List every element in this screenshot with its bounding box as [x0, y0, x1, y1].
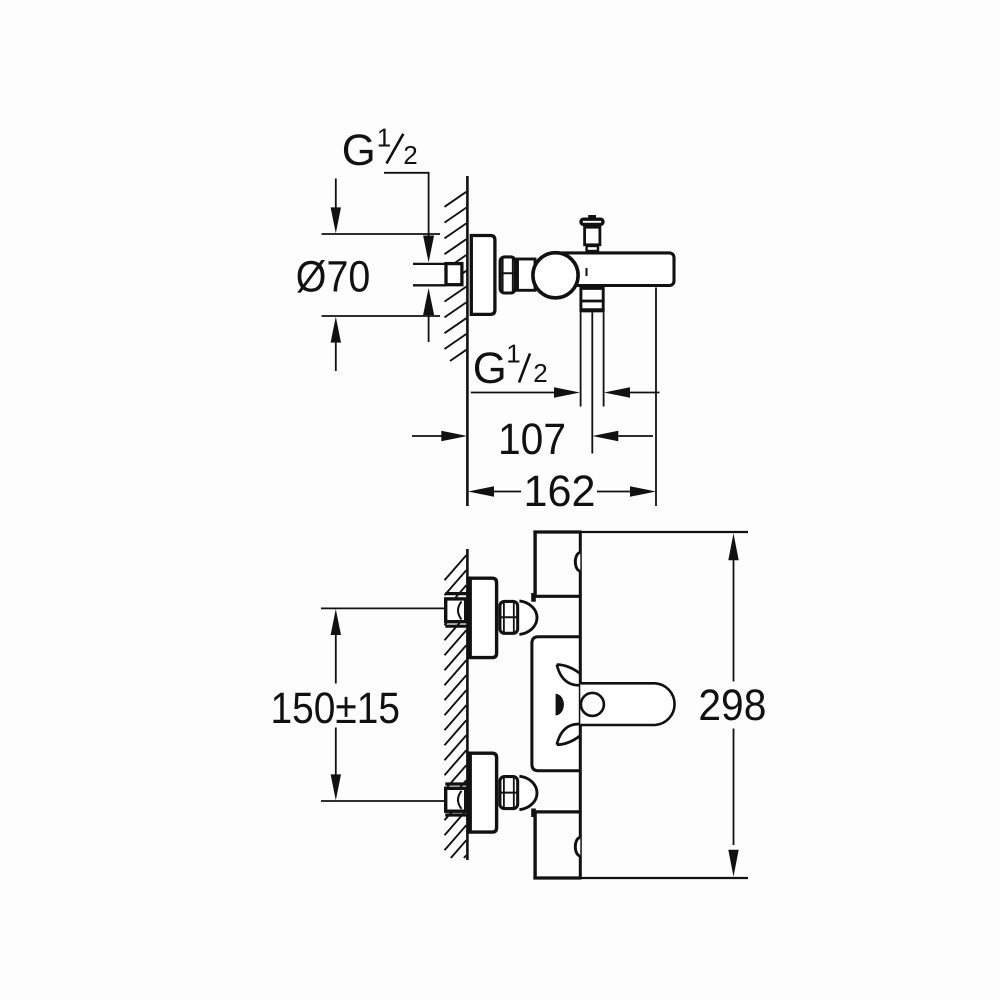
- body bottom end face: [533, 876, 581, 879]
- top square pipe fitting: [446, 599, 466, 622]
- wall (plan view) surface line: [466, 549, 469, 860]
- svg-text:G: G: [342, 126, 376, 175]
- dimension Ø70: extension lines: [322, 233, 441, 235]
- diverter knob stem: [585, 227, 600, 245]
- bottom escutcheon (plan): [470, 753, 496, 832]
- valve inlet cylinder: [518, 259, 536, 290]
- body front face line (plan): [579, 532, 582, 878]
- bottom union boss corner: [532, 809, 536, 817]
- dimension G 1/2: line and arrows: [471, 392, 556, 394]
- wall (plan view) hatching: [445, 555, 467, 580]
- diverter knob cap: [581, 219, 603, 224]
- bottom handle left edge: [533, 812, 536, 879]
- body centre block (plan): [532, 637, 580, 771]
- outlet centre extension line: [591, 312, 593, 453]
- mixer body bar (side view): [552, 253, 674, 286]
- outlet right extension line: [603, 312, 605, 406]
- dimension Ø70: bottom arrow: [331, 317, 341, 343]
- dimension 107: line and arrows: [412, 435, 443, 437]
- svg-text:1: 1: [377, 123, 391, 153]
- bottom handle top edge: [533, 810, 580, 813]
- spout end extension line (162): [655, 288, 657, 507]
- 298 extension line top: [582, 531, 749, 533]
- dimension 162: line, arrows, text: [468, 486, 494, 496]
- leader line from G 1/2: [384, 173, 429, 237]
- handle lever wing bottom: [557, 724, 581, 745]
- diverter knob neck: [587, 246, 598, 251]
- top union dome: [519, 601, 537, 635]
- dimension 298: line and arrows: [728, 533, 738, 560]
- bath spout outlet block: [581, 288, 603, 311]
- escutcheon (side view): [471, 236, 495, 315]
- top hex nut (plan): [500, 601, 518, 633]
- svg-text:298: 298: [698, 681, 766, 730]
- svg-text:G: G: [473, 344, 507, 393]
- top handle bottom edge: [533, 595, 580, 598]
- top union boss corner: [532, 594, 536, 602]
- wall (side view) surface line: [466, 176, 469, 506]
- thermostat cap circle (side view): [533, 253, 578, 298]
- bottom supply pipe bars: [445, 782, 467, 785]
- svg-text:Ø70: Ø70: [296, 252, 371, 301]
- svg-text:2: 2: [403, 140, 417, 170]
- body top end face: [533, 530, 581, 533]
- wall (side view) hatching: [445, 192, 467, 207]
- dimension Ø70: top arrow: [335, 179, 337, 210]
- aerator circle: [581, 693, 604, 716]
- svg-text:162: 162: [524, 467, 596, 516]
- svg-text:2: 2: [533, 358, 547, 388]
- bottom square pipe fitting: [446, 788, 466, 811]
- hex connection nut (side view): [500, 257, 515, 293]
- supply pipe stub behind wall: [413, 263, 446, 265]
- diverter knob top button: [589, 216, 595, 218]
- bottom hex nut (plan): [500, 777, 518, 809]
- union square nut on pipe: [446, 264, 462, 285]
- bottom handle screw dome: [575, 838, 580, 856]
- spout (plan view): [580, 683, 674, 725]
- 298 extension line bottom: [582, 877, 749, 879]
- top escutcheon (plan): [470, 578, 496, 657]
- top supply pipe bars: [445, 592, 467, 595]
- svg-text:107: 107: [498, 415, 566, 464]
- svg-text:150±15: 150±15: [271, 684, 401, 733]
- dimension 150±15: arrows and line: [331, 609, 341, 635]
- svg-text:1: 1: [506, 339, 520, 369]
- handle lever wing top: [557, 665, 581, 686]
- leader arrow down to pipe: [423, 236, 434, 263]
- outlet left extension line: [580, 312, 582, 406]
- hidden diverter rod tick: [586, 268, 588, 276]
- bottom union dome: [519, 776, 537, 810]
- diverter marking blob: [556, 694, 564, 716]
- top handle screw dome: [575, 553, 580, 571]
- dimension 150±15: extension lines: [321, 607, 444, 609]
- arrow up to pipe bottom: [423, 288, 434, 315]
- top handle left edge: [533, 531, 536, 597]
